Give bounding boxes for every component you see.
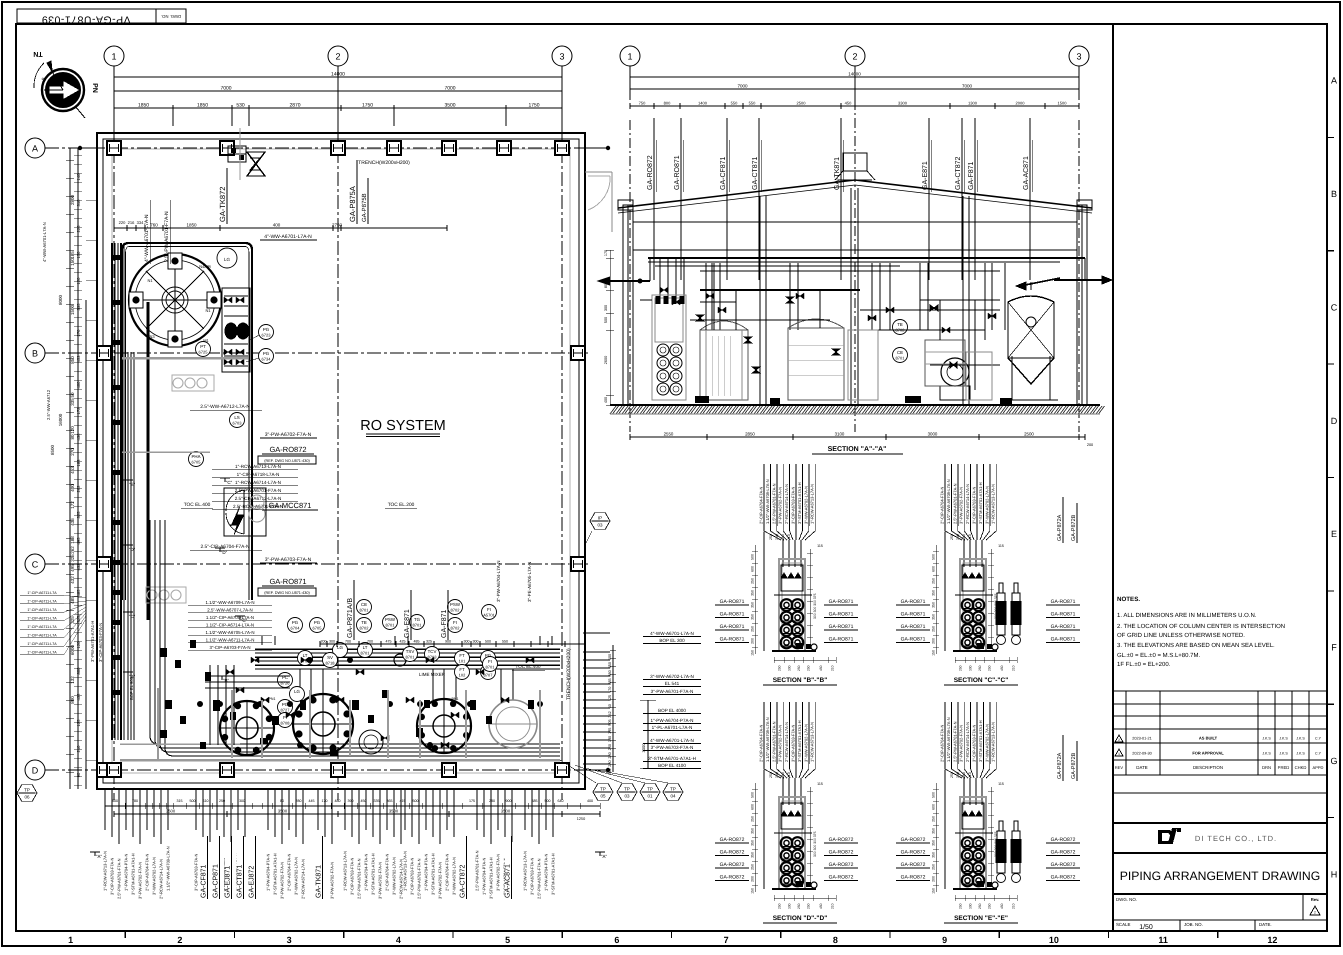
svg-text:A5701: A5701 <box>483 613 495 618</box>
svg-text:280: 280 <box>489 799 495 803</box>
tank GA-TK872 (plan circle) <box>129 254 221 346</box>
svg-text:425: 425 <box>400 640 406 644</box>
pump GA-P875A/B block at top wall <box>228 146 246 162</box>
svg-text:350: 350 <box>751 590 755 596</box>
svg-text:2500: 2500 <box>797 101 807 106</box>
svg-text:GA-RO871: GA-RO871 <box>901 599 926 605</box>
detail C tower <box>960 559 986 651</box>
svg-text:1"-CIP-A6711-L7A: 1"-CIP-A6711-L7A <box>27 600 57 604</box>
svg-text:2"-CIP-A6704-F7A-N: 2"-CIP-A6704-F7A-N <box>287 853 292 891</box>
svg-text:334: 334 <box>137 220 144 225</box>
detail C bottom dims <box>955 659 1017 661</box>
svg-text:2850: 2850 <box>745 432 755 437</box>
svg-text:GA-RO871: GA-RO871 <box>1051 624 1076 630</box>
svg-text:1.1/2"-WW-A6709-L7A-N: 1.1/2"-WW-A6709-L7A-N <box>166 846 171 891</box>
svg-text:N3: N3 <box>149 334 155 339</box>
svg-text:9: 9 <box>942 935 947 945</box>
svg-text:BOP EL 900: BOP EL 900 <box>129 676 134 700</box>
svg-text:GA-F871: GA-F871 <box>968 161 975 190</box>
svg-text:250: 250 <box>950 534 954 540</box>
svg-text:NOTES.: NOTES. <box>1117 596 1140 603</box>
svg-text:500: 500 <box>545 799 551 803</box>
svg-text:6705: 6705 <box>192 460 202 465</box>
svg-text:550: 550 <box>731 101 738 106</box>
svg-text:PSW: PSW <box>385 617 396 622</box>
svg-text:GA-TK872: GA-TK872 <box>218 187 227 222</box>
svg-text:GA-RO872: GA-RO872 <box>720 862 745 868</box>
section tank 2 (GA-CF871) <box>700 330 748 400</box>
svg-text:GA-E871: GA-E871 <box>922 161 929 190</box>
svg-text:GA-CT871: GA-CT871 <box>237 864 244 898</box>
svg-text:500: 500 <box>751 792 755 798</box>
pump row dark fittings scatter <box>213 700 220 711</box>
pump row valve bowties <box>261 697 269 703</box>
section extra vertical drops <box>705 263 707 330</box>
svg-text:3"-CIP-A6703-F7A-N: 3"-CIP-A6703-F7A-N <box>791 486 796 524</box>
svg-text:1500: 1500 <box>1058 101 1068 106</box>
svg-text:GA-TK871: GA-TK871 <box>834 157 841 190</box>
detail D base <box>772 888 816 890</box>
svg-text:310: 310 <box>76 199 81 207</box>
svg-text:PIPING ARRANGEMENT DRAWING: PIPING ARRANGEMENT DRAWING <box>1120 869 1320 883</box>
svg-text:JOB. NO.: JOB. NO. <box>1184 922 1203 927</box>
svg-text:GA-RO871: GA-RO871 <box>1051 599 1076 605</box>
svg-text:1"-RCW-A6713-L7A-N: 1"-RCW-A6713-L7A-N <box>810 722 815 762</box>
svg-text:1850: 1850 <box>138 103 149 109</box>
section left wall column <box>623 205 633 405</box>
svg-text:500: 500 <box>190 799 196 803</box>
svg-text:3"-STM-A6701-A7A1-H: 3"-STM-A6701-A7A1-H <box>551 853 556 895</box>
svg-text:J.K.S: J.K.S <box>1296 752 1305 756</box>
svg-text:H: H <box>1331 869 1338 879</box>
svg-text:GA-RO871: GA-RO871 <box>901 612 926 618</box>
detail B bottom dims <box>774 659 836 661</box>
detail B tower <box>779 559 805 651</box>
svg-text:G: G <box>1330 756 1337 766</box>
svg-text:505: 505 <box>608 719 612 725</box>
svg-text:110: 110 <box>781 772 785 778</box>
svg-text:1"-CIP-A6711-L7A: 1"-CIP-A6711-L7A <box>27 651 57 655</box>
svg-text:600: 600 <box>932 804 936 810</box>
svg-text:250: 250 <box>778 665 782 671</box>
svg-text:200: 200 <box>751 638 755 644</box>
detail D membrane circles <box>781 837 793 849</box>
valve dots bottom row <box>197 701 203 707</box>
plan top dimension 14000 <box>114 76 562 78</box>
svg-text:125: 125 <box>608 695 612 701</box>
svg-text:3"-WW-A6702-L7A-N: 3"-WW-A6702-L7A-N <box>803 486 808 524</box>
detail D left dim chain <box>754 783 756 892</box>
svg-text:1300: 1300 <box>968 101 978 106</box>
svg-text:3"-PW-A6702-F7A-N: 3"-PW-A6702-F7A-N <box>378 862 383 899</box>
svg-text:PN1: PN1 <box>269 697 276 701</box>
svg-text:400: 400 <box>604 397 608 403</box>
svg-text:700: 700 <box>367 640 373 644</box>
svg-text:110: 110 <box>787 534 791 540</box>
detail E right dim chain <box>990 787 992 887</box>
svg-text:183: 183 <box>76 459 81 467</box>
svg-text:800: 800 <box>112 799 118 803</box>
svg-text:3"-WW-A6702-L7A-N: 3"-WW-A6702-L7A-N <box>152 857 157 895</box>
svg-text:2: 2 <box>1314 911 1316 915</box>
svg-text:GA-RO871: GA-RO871 <box>829 624 854 630</box>
skid edge gray lines bottom <box>120 759 560 762</box>
svg-text:1: 1 <box>111 52 116 62</box>
svg-text:SV: SV <box>327 655 333 660</box>
svg-text:350: 350 <box>932 852 936 858</box>
svg-text:2023-01-21: 2023-01-21 <box>1132 737 1151 741</box>
svg-text:350: 350 <box>751 828 755 834</box>
svg-text:PN1: PN1 <box>452 697 459 701</box>
svg-text:195: 195 <box>608 728 612 734</box>
svg-text:"C": "C" <box>226 480 233 485</box>
svg-text:GA-RO872: GA-RO872 <box>901 862 926 868</box>
svg-text:1"-PW-A6704-P7A-N: 1"-PW-A6704-P7A-N <box>544 854 549 891</box>
svg-text:1"-PW-A6704-P7A-N: 1"-PW-A6704-P7A-N <box>266 854 271 891</box>
svg-text:TP: TP <box>24 788 30 793</box>
svg-text:200: 200 <box>932 638 936 644</box>
svg-text:J.K.S: J.K.S <box>1262 737 1271 741</box>
svg-text:450: 450 <box>1000 665 1004 671</box>
svg-text:500: 500 <box>932 554 936 560</box>
svg-text:8701: 8701 <box>486 665 496 670</box>
svg-text:2: 2 <box>335 52 340 62</box>
svg-text:04: 04 <box>670 794 676 799</box>
svg-text:3"-PW-A6702-F7A-N: 3"-PW-A6702-F7A-N <box>438 862 443 899</box>
svg-text:350: 350 <box>751 840 755 846</box>
detail C right dim chain <box>990 549 992 649</box>
svg-text:200: 200 <box>751 876 755 882</box>
svg-text:7000: 7000 <box>962 84 973 89</box>
svg-text:SECTION "E"-"E": SECTION "E"-"E" <box>954 915 1008 922</box>
svg-text:F: F <box>1331 643 1337 653</box>
svg-text:2.5"-PW-A6701-F7A-N: 2.5"-PW-A6701-F7A-N <box>952 721 957 762</box>
pump row gray support legs <box>157 688 159 760</box>
svg-text:3. THE ELEVATIONS ARE BASE: 3. THE ELEVATIONS ARE BASED ON MEAN SEA … <box>1117 642 1275 649</box>
svg-text:D: D <box>1331 416 1338 426</box>
svg-text:1"-PW-A6704-P7A-N: 1"-PW-A6704-P7A-N <box>124 854 129 891</box>
svg-text:GA-P872B: GA-P872B <box>1071 752 1077 779</box>
ground hatch <box>610 406 1105 414</box>
svg-text:1250: 1250 <box>577 817 585 821</box>
svg-text:GA-RO871: GA-RO871 <box>829 637 854 643</box>
svg-text:PG: PG <box>263 327 270 332</box>
svg-text:325: 325 <box>426 640 432 644</box>
svg-text:1850: 1850 <box>197 103 208 109</box>
detail D base fittings <box>796 881 803 887</box>
tank outlet pipe <box>147 302 150 620</box>
svg-text:170: 170 <box>322 799 328 803</box>
svg-text:585: 585 <box>532 799 538 803</box>
section vessel GA-AC871 (cone bottom) <box>1008 296 1054 384</box>
svg-text:05: 05 <box>600 794 606 799</box>
title block empty bands <box>1113 792 1327 794</box>
svg-text:SECTION "A"-"A": SECTION "A"-"A" <box>828 446 887 453</box>
svg-text:250: 250 <box>988 665 992 671</box>
svg-text:101: 101 <box>459 659 466 664</box>
svg-text:8701: 8701 <box>360 608 370 613</box>
svg-text:300: 300 <box>239 799 245 803</box>
svg-text:3000: 3000 <box>641 743 646 753</box>
svg-text:06: 06 <box>24 795 30 800</box>
svg-text:170: 170 <box>604 250 608 256</box>
svg-text:3"-WW-A6702-L7A-N: 3"-WW-A6702-L7A-N <box>803 724 808 762</box>
svg-text:"E": "E" <box>129 482 136 487</box>
svg-text:3"-PW-A6703-F7A-N: 3"-PW-A6703-F7A-N <box>265 557 312 563</box>
svg-text:110: 110 <box>787 772 791 778</box>
svg-text:4"-WW-A6701-L7A-N: 4"-WW-A6701-L7A-N <box>264 234 312 240</box>
svg-text:1"-RCW-A6713-L7A-N: 1"-RCW-A6713-L7A-N <box>991 484 996 524</box>
detail D bottom dims <box>774 897 836 899</box>
svg-text:350: 350 <box>751 852 755 858</box>
svg-text:GA-RO871: GA-RO871 <box>1051 637 1076 643</box>
svg-text:(REF. DWG NO.U871-430): (REF. DWG NO.U871-430) <box>264 459 310 463</box>
svg-text:CHKD: CHKD <box>1295 765 1307 770</box>
svg-text:FOR APPROVAL: FOR APPROVAL <box>1192 751 1224 756</box>
detail C side drop pipe <box>944 532 946 651</box>
svg-text:2870: 2870 <box>289 103 300 109</box>
section grid bubble 1 <box>620 46 640 66</box>
title block column divider <box>1112 24 1114 931</box>
svg-text:GA-RO871: GA-RO871 <box>1051 612 1076 618</box>
svg-text:01: 01 <box>647 794 653 799</box>
wall column symbols right column <box>571 346 585 360</box>
svg-text:N4A/B: N4A/B <box>199 264 211 269</box>
svg-text:242: 242 <box>608 711 612 717</box>
svg-text:1"-CIP-A6711-L7A: 1"-CIP-A6711-L7A <box>27 642 57 646</box>
plan row grid line D with bubble <box>25 760 45 780</box>
svg-text:FI: FI <box>453 620 457 625</box>
svg-text:1"-PL-A6701-L7A-N: 1"-PL-A6701-L7A-N <box>652 725 693 730</box>
svg-text:250: 250 <box>778 903 782 909</box>
section eave brackets <box>618 200 633 210</box>
svg-text:6723: 6723 <box>262 333 272 338</box>
svg-text:300: 300 <box>464 640 470 644</box>
svg-text:GL.±0 = EL.±0 = M.S.L+80.7: GL.±0 = EL.±0 = M.S.L+80.7M. <box>1117 652 1200 659</box>
svg-text:GA-RO871: GA-RO871 <box>269 577 306 586</box>
instrument LS6703 <box>230 413 245 428</box>
svg-text:3"-STM-A6701-A7A1-H: 3"-STM-A6701-A7A1-H <box>797 720 802 762</box>
svg-text:250: 250 <box>959 903 963 909</box>
svg-text:760: 760 <box>150 223 158 228</box>
svg-text:200: 200 <box>321 640 327 644</box>
grid A extension markers <box>80 147 97 149</box>
svg-text:380: 380 <box>608 670 612 676</box>
svg-text:3"-PW-A6702-F7A-N: 3"-PW-A6702-F7A-N <box>265 432 312 438</box>
plan lower dimension row <box>320 643 585 645</box>
instrument PT6725 <box>196 342 211 357</box>
svg-text:250: 250 <box>988 903 992 909</box>
svg-text:2.5"-PW-A6701-F7A-N: 2.5"-PW-A6701-F7A-N <box>771 483 776 524</box>
detail B base <box>772 650 816 652</box>
svg-text:250: 250 <box>769 772 773 778</box>
svg-text:3"-CIP-A6703-F7A-N: 3"-CIP-A6703-F7A-N <box>110 857 115 895</box>
svg-text:250: 250 <box>807 665 811 671</box>
svg-text:GA-P872A: GA-P872A <box>1057 752 1063 779</box>
svg-text:GA-RO871: GA-RO871 <box>829 612 854 618</box>
svg-text:2"-CIP-A6704-F7A-N: 2"-CIP-A6704-F7A-N <box>759 724 764 762</box>
svg-text:250: 250 <box>797 665 801 671</box>
svg-text:1.1/2"-CIP-A6714-L7A-N: 1.1/2"-CIP-A6714-L7A-N <box>206 623 254 628</box>
svg-text:J.K.S: J.K.S <box>1262 752 1271 756</box>
detail D top manifold <box>781 803 803 829</box>
svg-text:2"-CIP-A6704-F7A-N: 2"-CIP-A6704-F7A-N <box>759 486 764 524</box>
plan row grid line B with bubble <box>25 343 45 363</box>
svg-text:436: 436 <box>76 433 81 441</box>
svg-text:APPD: APPD <box>1313 765 1324 770</box>
svg-text:262: 262 <box>70 546 75 554</box>
svg-text:3"-CIP-A6703-F7A-N: 3"-CIP-A6703-F7A-N <box>98 623 103 662</box>
svg-text:2.5"-PW-A6701-F7A-N: 2.5"-PW-A6701-F7A-N <box>357 858 362 899</box>
svg-text:TOC EL.400: TOC EL.400 <box>184 502 211 508</box>
pump/vessel circle 3 <box>417 699 471 753</box>
svg-text:1: 1 <box>68 935 73 945</box>
svg-text:"C": "C" <box>129 614 136 619</box>
svg-text:TCV: TCV <box>428 649 437 654</box>
svg-text:16000: 16000 <box>58 413 63 426</box>
svg-text:1500: 1500 <box>70 304 75 315</box>
plan column grid line 3 <box>561 126 563 800</box>
svg-text:1"-RCW-A6713-L7A-N: 1"-RCW-A6713-L7A-N <box>523 851 528 891</box>
svg-text:3"-CIP-A6703-F7A-N: 3"-CIP-A6703-F7A-N <box>410 857 415 895</box>
svg-text:8500: 8500 <box>50 444 55 455</box>
svg-text:1"-RCW-A6714-L7A-N: 1"-RCW-A6714-L7A-N <box>235 480 281 485</box>
svg-text:TSV: TSV <box>406 649 415 654</box>
svg-text:250: 250 <box>932 626 936 632</box>
svg-text:3"-STM-A6701-A7A1-H: 3"-STM-A6701-A7A1-H <box>371 853 376 895</box>
svg-text:250: 250 <box>807 903 811 909</box>
svg-text:325: 325 <box>70 616 75 624</box>
svg-text:300: 300 <box>775 534 779 540</box>
svg-text:1.1/2"-WW-A6711-L7A-N: 1.1/2"-WW-A6711-L7A-N <box>206 638 255 643</box>
svg-text:1"-CIP-A6711-L7A: 1"-CIP-A6711-L7A <box>27 617 57 621</box>
svg-text:7000: 7000 <box>737 84 748 89</box>
svg-text:3500: 3500 <box>444 103 455 109</box>
vessel top pipe <box>1030 282 1032 290</box>
wall column symbols top row <box>107 141 121 155</box>
svg-text:315: 315 <box>177 799 183 803</box>
svg-text:GA-CF871: GA-CF871 <box>201 864 208 898</box>
company logo DI <box>1158 828 1181 844</box>
svg-text:8726: 8726 <box>281 681 291 686</box>
svg-text:485: 485 <box>414 640 420 644</box>
detail C pump columns <box>997 593 1005 635</box>
detail E membrane circles <box>962 837 974 849</box>
svg-text:600: 600 <box>751 804 755 810</box>
roof vent stack <box>843 153 867 171</box>
svg-text:1.1/2"-WW-A6709-L7A-N: 1.1/2"-WW-A6709-L7A-N <box>765 717 770 762</box>
svg-text:TE: TE <box>897 322 903 327</box>
svg-text:5: 5 <box>505 935 510 945</box>
svg-text:GA-RO871: GA-RO871 <box>829 599 854 605</box>
svg-text:150: 150 <box>70 258 75 266</box>
svg-text:120: 120 <box>76 277 81 285</box>
plan grid bubble 3 <box>552 46 572 66</box>
svg-text:GA-RO872: GA-RO872 <box>269 445 306 454</box>
left wall valves blobs <box>111 255 122 260</box>
svg-text:GA-F871: GA-F871 <box>441 609 448 638</box>
detail B base fittings <box>796 643 803 649</box>
svg-text:450: 450 <box>819 665 823 671</box>
svg-text:GA-RO872: GA-RO872 <box>720 837 745 843</box>
svg-text:3"-CIP-A6703-F7A-N: 3"-CIP-A6703-F7A-N <box>350 857 355 895</box>
agitator small circles <box>359 730 383 754</box>
svg-text:1.1/2"-WW-A6709-L7A-N: 1.1/2"-WW-A6709-L7A-N <box>946 479 951 524</box>
svg-text:485: 485 <box>76 589 81 597</box>
svg-text:250: 250 <box>769 534 773 540</box>
svg-text:285: 285 <box>608 678 612 684</box>
svg-text:300: 300 <box>956 772 960 778</box>
svg-text:500: 500 <box>932 792 936 798</box>
svg-text:110: 110 <box>781 534 785 540</box>
svg-text:IP: IP <box>598 516 602 521</box>
section left filter rack GA-RO872 <box>652 295 686 400</box>
title band line <box>1113 852 1327 854</box>
svg-text:LG: LG <box>337 645 343 650</box>
svg-text:PN1: PN1 <box>333 695 340 699</box>
svg-text:3"-STM-A6701-A7A1-H: 3"-STM-A6701-A7A1-H <box>648 756 696 761</box>
svg-text:3"-STM-A6701-A7A1-H: 3"-STM-A6701-A7A1-H <box>978 720 983 762</box>
svg-text:GA-RO871: GA-RO871 <box>674 155 681 190</box>
svg-text:400: 400 <box>70 484 75 492</box>
svg-text:DATE.: DATE. <box>1259 922 1272 927</box>
svg-text:250: 250 <box>797 903 801 909</box>
svg-text:TP: TP <box>624 787 630 792</box>
detail C base fittings <box>977 643 984 649</box>
bottom piping L-bend bundle <box>149 520 151 736</box>
revision row 2 (AS BUILT) <box>1115 735 1123 742</box>
svg-text:GA-CT872: GA-CT872 <box>460 864 467 898</box>
svg-text:3"-PW-A6701-A7A1-H: 3"-PW-A6701-A7A1-H <box>90 621 95 662</box>
svg-text:365: 365 <box>387 799 393 803</box>
svg-text:900: 900 <box>506 799 512 803</box>
section overhead pipe левый drops <box>659 258 661 300</box>
svg-text:GA-CT872: GA-CT872 <box>955 156 962 190</box>
svg-text:2"-RCW-A6714-L7A-N: 2"-RCW-A6714-L7A-N <box>965 722 970 762</box>
detail B right dim chain <box>809 549 811 649</box>
svg-text:6703: 6703 <box>233 421 243 426</box>
svg-text:3000: 3000 <box>928 432 938 437</box>
svg-text:SECTION "B"-"B": SECTION "B"-"B" <box>773 677 828 684</box>
svg-text:500: 500 <box>751 554 755 560</box>
svg-text:700: 700 <box>345 640 351 644</box>
svg-text:FI: FI <box>487 607 491 612</box>
svg-text:350: 350 <box>932 602 936 608</box>
svg-text:TOC EL.200: TOC EL.200 <box>388 502 415 508</box>
svg-text:TRENCH(W200xH200): TRENCH(W200xH200) <box>358 160 410 166</box>
svg-text:7000: 7000 <box>220 86 231 92</box>
svg-text:200: 200 <box>932 876 936 882</box>
svg-text:400: 400 <box>76 381 81 389</box>
instrument FI8701 and TOC EL.400 labels <box>483 657 498 672</box>
svg-text:1400: 1400 <box>698 101 708 106</box>
svg-text:140: 140 <box>76 173 81 181</box>
svg-text:1"-PW-A6704-P7A-N: 1"-PW-A6704-P7A-N <box>364 854 369 891</box>
svg-text:LT: LT <box>363 645 368 650</box>
plan inner dimension row under pumps <box>114 227 447 229</box>
svg-text:250: 250 <box>978 665 982 671</box>
svg-text:DWG. NO.: DWG. NO. <box>161 14 181 19</box>
revision row 1 (FOR APPROVAL) <box>1115 749 1123 756</box>
svg-text:2"-CIP-A6704-F7A-N: 2"-CIP-A6704-F7A-N <box>940 724 945 762</box>
svg-text:3"-PW-A6702-F7A-N: 3"-PW-A6702-F7A-N <box>280 862 285 899</box>
detail E left dim chain <box>935 783 937 892</box>
svg-text:3"-CIP-A6703-F7A-N: 3"-CIP-A6703-F7A-N <box>972 724 977 762</box>
svg-text:3"-STM-A6701-A7A1-H: 3"-STM-A6701-A7A1-H <box>273 853 278 895</box>
section piping right cluster <box>920 299 1000 301</box>
trench line inside walls (gray) <box>112 149 570 773</box>
svg-text:432: 432 <box>76 693 81 701</box>
